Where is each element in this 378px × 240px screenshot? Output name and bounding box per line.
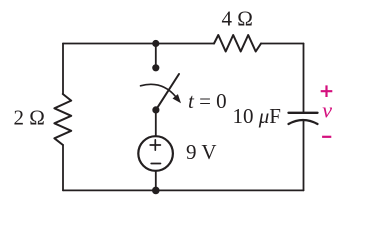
svg-text:9 V: 9 V — [186, 140, 217, 164]
svg-text:10 μF: 10 μF — [233, 104, 281, 128]
svg-text:2 Ω: 2 Ω — [14, 106, 45, 130]
svg-text:t = 0: t = 0 — [188, 89, 227, 113]
svg-text:4 Ω: 4 Ω — [222, 7, 253, 31]
svg-text:v: v — [322, 98, 332, 123]
